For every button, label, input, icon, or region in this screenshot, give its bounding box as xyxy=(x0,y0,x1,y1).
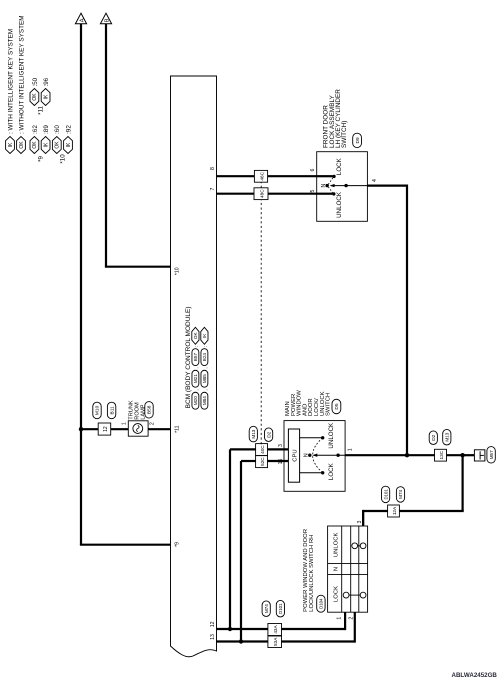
power window and door lock/unlock switch RH SW3 xyxy=(328,526,368,612)
wire from arrow B xyxy=(105,24,107,267)
BCM connector oval B24 xyxy=(201,349,208,366)
wire arrow B drop to BCM pin *10 xyxy=(105,266,171,268)
main switch dashed selector arc xyxy=(313,438,323,473)
RH switch grid column line 1 xyxy=(328,574,368,576)
BCM connector oval B57 xyxy=(192,349,199,366)
connector oval M13 (door harness) xyxy=(443,429,451,445)
svg-text:A: A xyxy=(79,18,85,22)
svg-text::50: :50 xyxy=(32,77,39,86)
wire arrow A drop to BCM pin *9 xyxy=(80,544,171,546)
connector oval M10 xyxy=(93,402,101,419)
svg-text:7: 7 xyxy=(210,187,216,190)
legend hexagon OK *10 xyxy=(52,137,61,154)
svg-text:B24: B24 xyxy=(202,353,207,362)
svg-text:1: 1 xyxy=(347,448,353,451)
key cylinder common line to pin 4 xyxy=(331,185,367,187)
svg-text:,: , xyxy=(195,389,200,390)
svg-text:M13: M13 xyxy=(251,429,256,438)
svg-text:12: 12 xyxy=(103,426,109,432)
svg-text::92: :92 xyxy=(65,125,72,134)
svg-text:D101: D101 xyxy=(278,603,283,614)
svg-text:5: 5 xyxy=(310,189,316,192)
BCM hexagon OK xyxy=(192,327,199,344)
svg-text:OK: OK xyxy=(19,141,25,149)
connector pin box 43A (M74/D101) xyxy=(268,624,282,636)
wire ground junction to body ground xyxy=(463,454,475,456)
off-page arrow B xyxy=(100,13,111,24)
svg-text:OK: OK xyxy=(193,332,198,340)
front door lock assembly key cylinder switch SW1 xyxy=(317,152,368,222)
legend hexagon OK xyxy=(17,137,26,154)
svg-text::62: :62 xyxy=(32,125,39,134)
svg-text:53A: 53A xyxy=(273,637,278,646)
connector oval M13 (main switch) xyxy=(249,426,257,442)
svg-text:LOCK: LOCK xyxy=(328,462,335,480)
wire 12A to RH switch pin 3 xyxy=(363,510,388,512)
BCM connector oval M21 xyxy=(192,370,199,387)
svg-text:LOCK: LOCK xyxy=(336,157,343,175)
main switch UNLOCK contact xyxy=(321,436,324,439)
connector oval B58 xyxy=(145,402,153,419)
svg-text:12: 12 xyxy=(210,621,216,627)
svg-text:8: 8 xyxy=(210,167,216,170)
svg-text:M21: M21 xyxy=(193,374,198,383)
junction node pin 12 branch xyxy=(228,627,232,631)
connector oval D2 (door harness) xyxy=(429,431,437,445)
wire junction to connector 12 xyxy=(81,428,98,430)
svg-text:40C: 40C xyxy=(260,445,265,454)
trunk room lamp L1 xyxy=(128,421,148,436)
wire connector 12 to trunk room lamp pin 1 xyxy=(111,428,129,430)
wire RH switch pin 3 stub xyxy=(362,510,364,526)
RH switch grid column line 2 xyxy=(328,562,368,564)
BCM connector oval M85 xyxy=(201,370,208,387)
svg-text:1: 1 xyxy=(336,617,342,620)
RH switch UNLOCK contact circle pin3 xyxy=(360,543,366,549)
connector pin box 46C (M13/D2) xyxy=(254,170,267,182)
connector oval B11 xyxy=(107,402,115,419)
svg-text:D101: D101 xyxy=(383,489,388,500)
connector pin box 48C (M13/D2) xyxy=(254,188,268,200)
svg-text:6: 6 xyxy=(310,168,316,171)
wire 43A to RH switch pin 1 xyxy=(282,628,346,630)
svg-text:UNLOCK: UNLOCK xyxy=(334,532,340,557)
legend hexagon IK xyxy=(6,137,15,154)
BCM body control module U1 xyxy=(171,76,217,657)
wire BCM pin 12 to junction xyxy=(217,628,268,630)
wire BCM pin 7 to connector 48C xyxy=(217,193,255,195)
svg-text:BCM (BODY CONTROL MODULE): BCM (BODY CONTROL MODULE) xyxy=(185,306,192,408)
junction node on wire A xyxy=(79,427,83,431)
svg-text:D9: D9 xyxy=(355,137,361,143)
svg-text:N: N xyxy=(334,567,340,571)
wire trunk room lamp pin 2 to BCM pin *11 xyxy=(148,428,170,430)
svg-text:OK: OK xyxy=(55,141,61,149)
connector oval D104 xyxy=(317,595,325,612)
BCM connector oval M20 xyxy=(192,392,199,409)
svg-text:M13: M13 xyxy=(445,432,450,441)
svg-text:D2: D2 xyxy=(266,431,272,437)
svg-text:1: 1 xyxy=(121,422,127,425)
wire 53A to RH switch pin 2 xyxy=(282,640,355,642)
connector oval D101 (front) xyxy=(382,486,390,503)
wire pin 4 run to junction xyxy=(406,185,408,456)
wire corner to RH switch pin 1 xyxy=(344,612,346,630)
svg-text:M57: M57 xyxy=(489,450,494,459)
junction node ground branch xyxy=(460,453,464,457)
svg-text:*11: *11 xyxy=(174,425,180,433)
svg-text:43A: 43A xyxy=(273,624,278,633)
svg-text:13: 13 xyxy=(210,634,216,640)
BCM hexagon IK xyxy=(201,327,208,344)
svg-text:LAMP: LAMP xyxy=(141,404,147,420)
connector oval M57 xyxy=(487,447,495,464)
svg-text:3: 3 xyxy=(278,444,284,447)
main switch LOCK contact xyxy=(321,471,324,474)
BCM connector oval M84 xyxy=(201,392,208,409)
svg-text:SWITCH): SWITCH) xyxy=(341,121,348,148)
wire key cylinder pin 4 down xyxy=(367,185,407,187)
svg-text:*9: *9 xyxy=(174,542,180,547)
wire ground junction branch to 12A xyxy=(462,455,464,511)
svg-text:12A: 12A xyxy=(392,506,397,515)
wire BCM pin 13 to junction xyxy=(217,640,268,642)
svg-text:M74: M74 xyxy=(264,604,269,613)
main switch common line to pin 1 xyxy=(314,454,345,456)
wire connector 48C to key cylinder pin 5 xyxy=(268,193,317,195)
svg-text:M84: M84 xyxy=(202,396,207,405)
svg-text:2: 2 xyxy=(149,422,155,425)
wire junction to connector 13C xyxy=(407,454,435,456)
svg-text:*9: *9 xyxy=(37,156,44,162)
wire main switch pin 1 down xyxy=(345,454,407,456)
connector oval D101 (rear) xyxy=(276,600,284,617)
svg-text:D5: D5 xyxy=(334,403,340,409)
junction node main run xyxy=(405,453,409,457)
svg-text:OK: OK xyxy=(32,93,38,101)
svg-text:IK: IK xyxy=(66,142,72,147)
svg-text:UNLOCK: UNLOCK xyxy=(328,422,335,449)
wire from arrow A xyxy=(80,24,82,545)
RH switch grid line pin2 row xyxy=(350,526,352,612)
svg-text:B57: B57 xyxy=(193,353,198,362)
main power window and door lock/unlock switch SW2 xyxy=(284,421,345,492)
legend hexagon OK *11 xyxy=(30,89,39,106)
svg-text::96: :96 xyxy=(43,77,50,86)
CPU block xyxy=(288,429,299,482)
svg-text:2: 2 xyxy=(349,617,355,620)
wire 52C to CPU pin 15 xyxy=(268,460,289,462)
dashed connector reference line xyxy=(260,200,262,445)
connector oval D9 xyxy=(353,133,362,148)
wire corner to RH switch pin 2 xyxy=(354,612,356,642)
off-page arrow A xyxy=(75,13,86,24)
svg-text::: : xyxy=(204,346,209,347)
legend hexagon IK *10 xyxy=(64,137,73,154)
RH switch LOCK bridge xyxy=(349,594,360,596)
svg-text:*10: *10 xyxy=(174,267,180,275)
connector oval M74 (front) xyxy=(396,487,404,503)
RH switch grid line pin1 row xyxy=(341,526,343,612)
wire 12A riser xyxy=(399,510,463,512)
svg-text:LOCK/UNLOCK SWITCH RH: LOCK/UNLOCK SWITCH RH xyxy=(309,535,315,612)
wire BCM pin 12 horizontal run xyxy=(229,449,231,629)
RH switch LOCK contact circle pin1 xyxy=(343,592,349,598)
svg-text:4: 4 xyxy=(372,179,378,182)
wire 40C to CPU pin 3 xyxy=(268,448,289,450)
connector pin box 52C (M13/D2) xyxy=(256,456,268,468)
svg-text:LOCK: LOCK xyxy=(334,586,340,602)
connector pin box 53A (M74/D101) xyxy=(268,636,282,648)
body ground M57 xyxy=(474,450,485,461)
svg-text:*10: *10 xyxy=(59,154,66,164)
wire BCM pin 13 horizontal run xyxy=(240,461,242,642)
svg-text::89: :89 xyxy=(43,125,50,134)
key cylinder N pivot contact xyxy=(325,184,328,187)
key cylinder pin 5 stub to UNLOCK contact xyxy=(317,193,333,195)
key cylinder mid contact node xyxy=(344,184,347,187)
svg-text:: WITH INTELLIGENT KEY SYSTEM: : WITH INTELLIGENT KEY SYSTEM xyxy=(7,29,14,134)
svg-text:,: , xyxy=(204,367,209,368)
svg-text::: : xyxy=(195,346,200,347)
svg-text::60: :60 xyxy=(54,125,61,134)
svg-text:ABLWA2452GB: ABLWA2452GB xyxy=(452,672,498,679)
connector pin box 12 (M10/B11) xyxy=(98,423,111,435)
wire 13C to ground junction xyxy=(447,454,463,456)
svg-text:POWER WINDOW AND DOOR: POWER WINDOW AND DOOR xyxy=(303,529,309,612)
wire BCM pin 8 to connector 46C xyxy=(217,175,255,177)
svg-text:OK: OK xyxy=(32,141,38,149)
svg-text:48C: 48C xyxy=(259,189,264,198)
main switch LOCK contact line xyxy=(300,472,321,474)
wire CPU pin 15 riser xyxy=(241,460,256,462)
svg-text:13C: 13C xyxy=(439,450,444,459)
svg-text:: WITHOUT INTELLIGENT KEY SYST: : WITHOUT INTELLIGENT KEY SYSTEM xyxy=(18,15,25,134)
key cylinder pin 6 stub to LOCK contact xyxy=(317,175,333,177)
key cylinder movable contact arrow xyxy=(330,184,335,187)
key cylinder dashed link to UNLOCK xyxy=(328,187,332,193)
svg-text:B58: B58 xyxy=(147,405,153,414)
RH switch UNLOCK contact circle pin2 xyxy=(352,543,358,549)
svg-text:46C: 46C xyxy=(259,171,264,180)
svg-text:,: , xyxy=(195,367,200,368)
svg-text:UNLOCK: UNLOCK xyxy=(336,191,343,218)
RH switch LOCK contact circle pin3 xyxy=(360,592,366,598)
main switch N pivot contact xyxy=(308,454,311,457)
svg-text:IK: IK xyxy=(43,94,49,99)
svg-text:SWITCH: SWITCH xyxy=(326,393,332,416)
svg-text:,: , xyxy=(204,389,209,390)
connector pin box 40C (M13/D2) xyxy=(256,444,268,456)
svg-text:M10: M10 xyxy=(95,405,101,415)
svg-text:M20: M20 xyxy=(193,396,198,405)
key cylinder UNLOCK contact xyxy=(332,192,335,195)
RH switch UNLOCK bridge xyxy=(358,545,361,547)
svg-text:CPU: CPU xyxy=(293,449,299,461)
svg-text:B11: B11 xyxy=(109,406,115,415)
connector pin box 12A (D101/M74) xyxy=(388,505,400,517)
svg-text:M85: M85 xyxy=(202,374,207,383)
connector oval D2 (main switch) xyxy=(265,428,273,442)
RH switch grid line pin3 row xyxy=(358,526,360,612)
wire CPU pin 3 riser xyxy=(230,448,256,450)
connector pin box 13C (D2/M13) xyxy=(435,449,447,461)
svg-text:52C: 52C xyxy=(260,457,265,466)
svg-text:IK: IK xyxy=(8,142,14,147)
main switch UNLOCK contact line xyxy=(300,437,321,439)
connector oval D5 xyxy=(332,399,341,414)
key cylinder dashed link to LOCK xyxy=(328,178,333,185)
svg-text:B: B xyxy=(104,18,110,22)
main switch movable contact arrow xyxy=(312,454,317,457)
svg-text:*11: *11 xyxy=(37,105,44,114)
legend hexagon IK *11 xyxy=(41,89,50,106)
svg-text:D2: D2 xyxy=(431,434,437,440)
legend hexagon OK *9 xyxy=(30,137,39,154)
main switch pin 1 contact node xyxy=(336,454,339,457)
svg-text:M74: M74 xyxy=(398,489,403,498)
wire connector 46C to key cylinder pin 6 xyxy=(268,175,317,177)
svg-text:D104: D104 xyxy=(319,598,324,609)
legend hexagon IK *9 xyxy=(41,137,50,154)
connector oval M74 (rear) xyxy=(262,601,270,617)
svg-text:IK: IK xyxy=(43,142,49,147)
junction node pin 13 branch xyxy=(239,639,243,643)
key cylinder LOCK contact xyxy=(332,175,335,178)
